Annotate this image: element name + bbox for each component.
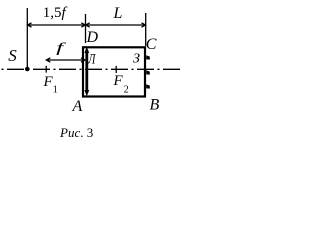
svg-text:F: F [113, 73, 124, 89]
svg-text:1: 1 [53, 85, 58, 96]
svg-text:C: C [146, 36, 157, 53]
svg-text:B: B [150, 97, 160, 114]
svg-text:S: S [8, 46, 17, 65]
svg-text:1,5f: 1,5f [43, 5, 68, 21]
svg-text:L: L [113, 5, 123, 22]
svg-text:2: 2 [124, 85, 129, 96]
svg-text:D: D [86, 29, 99, 46]
svg-text:Л: Л [87, 51, 96, 67]
svg-text:A: A [72, 98, 83, 115]
svg-text:Рис. 3: Рис. 3 [59, 125, 93, 140]
svg-text:З: З [133, 52, 140, 67]
